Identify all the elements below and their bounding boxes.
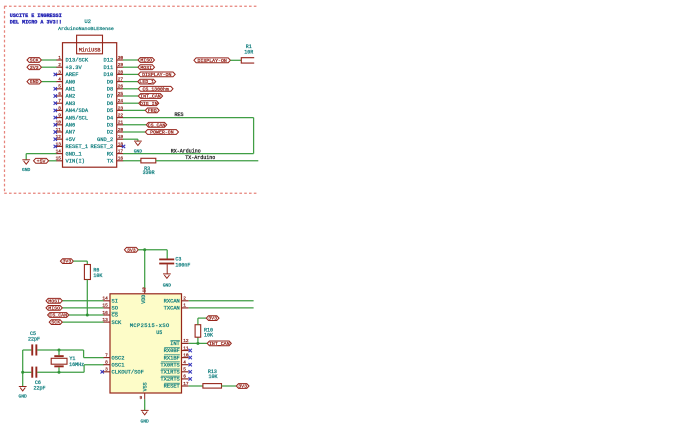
svg-text:16MHz: 16MHz [69, 362, 84, 368]
svg-text:INT: INT [170, 341, 180, 347]
svg-text:13: 13 [56, 141, 62, 147]
svg-text:TXCAN: TXCAN [164, 306, 180, 312]
svg-text:5: 5 [183, 367, 186, 373]
svg-text:AN4/SDA: AN4/SDA [66, 108, 89, 114]
svg-text:AN0: AN0 [66, 79, 76, 85]
svg-text:10K: 10K [93, 273, 102, 279]
svg-text:17: 17 [183, 381, 189, 387]
svg-text:3V3: 3V3 [127, 247, 136, 253]
svg-text:VDD: VDD [141, 295, 147, 304]
svg-text:LED_1: LED_1 [139, 79, 154, 85]
svg-text:CLKOUT/SOF: CLKOUT/SOF [112, 370, 144, 376]
svg-text:7: 7 [58, 98, 61, 104]
svg-text:D9: D9 [107, 79, 113, 85]
svg-text:22: 22 [118, 113, 124, 119]
svg-text:D3: D3 [107, 123, 113, 129]
svg-text:USCITE E INGRESSI: USCITE E INGRESSI [10, 13, 62, 19]
svg-text:GND_2: GND_2 [97, 137, 113, 143]
svg-text:19: 19 [118, 134, 124, 140]
svg-text:MISO: MISO [48, 305, 60, 311]
svg-text:MISO: MISO [140, 58, 152, 64]
svg-text:5: 5 [58, 84, 61, 90]
svg-text:23: 23 [118, 105, 124, 111]
svg-text:RESET: RESET [164, 384, 181, 390]
svg-text:330R: 330R [143, 170, 155, 176]
svg-text:U2: U2 [84, 19, 90, 25]
svg-text:10K: 10K [204, 333, 213, 339]
svg-text:RX-Arduino: RX-Arduino [171, 148, 201, 154]
svg-text:10: 10 [183, 352, 189, 358]
svg-text:12: 12 [183, 338, 189, 344]
svg-text:MCP2515-xSO: MCP2515-xSO [130, 323, 170, 329]
svg-text:3V3: 3V3 [30, 65, 39, 71]
svg-text:4: 4 [183, 360, 186, 366]
svg-text:9: 9 [58, 113, 61, 119]
svg-text:AN6: AN6 [66, 123, 76, 129]
svg-text:D5: D5 [107, 108, 113, 114]
svg-text:CS_CAN: CS_CAN [148, 122, 166, 128]
svg-text:26: 26 [118, 84, 124, 90]
svg-text:RXCAN: RXCAN [164, 299, 180, 305]
svg-text:D13/SCK: D13/SCK [66, 58, 89, 64]
svg-text:25: 25 [118, 91, 124, 97]
svg-text:7: 7 [105, 352, 108, 358]
svg-text:17: 17 [118, 149, 124, 155]
svg-text:RX0BF: RX0BF [164, 348, 180, 354]
svg-text:3V3: 3V3 [238, 384, 247, 390]
svg-text:10: 10 [56, 120, 62, 126]
svg-text:TX2RTS: TX2RTS [160, 377, 179, 383]
svg-text:INT_CAN: INT_CAN [209, 341, 230, 347]
svg-text:10K: 10K [208, 374, 217, 380]
svg-text:AN5/SCL: AN5/SCL [66, 115, 89, 121]
svg-text:AN7: AN7 [66, 130, 76, 136]
svg-text:1: 1 [58, 55, 61, 61]
svg-text:21: 21 [118, 120, 124, 126]
svg-text:RX: RX [107, 151, 114, 157]
svg-text:SO: SO [112, 306, 118, 312]
svg-text:GND: GND [22, 167, 31, 173]
svg-text:+3.3V: +3.3V [66, 65, 83, 71]
svg-text:6: 6 [183, 374, 186, 380]
svg-text:C3: C3 [175, 256, 181, 262]
svg-text:3: 3 [105, 367, 108, 373]
svg-text:20: 20 [118, 127, 124, 133]
svg-text:22pF: 22pF [28, 337, 40, 343]
svg-text:D4: D4 [107, 115, 113, 121]
svg-text:GND_1: GND_1 [66, 151, 82, 157]
svg-text:11: 11 [56, 127, 62, 133]
svg-text:DEL MICRO A 3V3!!: DEL MICRO A 3V3!! [10, 20, 62, 26]
svg-text:27: 27 [118, 77, 124, 83]
svg-text:AN2: AN2 [66, 94, 76, 100]
svg-text:CS: CS [112, 313, 118, 319]
svg-text:POWER-ON: POWER-ON [150, 130, 174, 136]
svg-text:2: 2 [183, 296, 186, 302]
svg-text:DISPLAY-ON: DISPLAY-ON [197, 58, 226, 64]
svg-text:D2: D2 [107, 130, 113, 136]
svg-text:ArduinoNanoBLESense: ArduinoNanoBLESense [58, 26, 114, 32]
svg-text:3V3: 3V3 [208, 316, 217, 322]
svg-text:CS_CAN: CS_CAN [49, 313, 67, 319]
svg-text:11: 11 [183, 345, 189, 351]
svg-text:MOSI: MOSI [140, 65, 152, 71]
svg-text:AN3: AN3 [66, 101, 76, 107]
svg-text:D7: D7 [107, 94, 113, 100]
svg-text:3V3: 3V3 [62, 259, 71, 265]
svg-text:D12: D12 [103, 58, 113, 64]
svg-text:6: 6 [58, 91, 61, 97]
svg-text:SCK: SCK [51, 320, 60, 326]
svg-text:1: 1 [183, 303, 186, 309]
svg-text:TX1RTS: TX1RTS [160, 370, 179, 376]
svg-text:AN1: AN1 [66, 87, 76, 93]
svg-text:TX0RTS: TX0RTS [160, 362, 179, 368]
svg-text:10R: 10R [244, 50, 253, 56]
svg-text:OSC1: OSC1 [112, 362, 125, 368]
svg-text:GND: GND [30, 79, 39, 85]
svg-text:RES: RES [174, 112, 183, 118]
svg-text:D6: D6 [107, 101, 113, 107]
svg-text:VSS: VSS [142, 382, 148, 391]
svg-text:8: 8 [58, 105, 61, 111]
svg-text:TX: TX [107, 159, 114, 165]
svg-text:SCK: SCK [112, 320, 122, 326]
svg-text:24: 24 [118, 98, 124, 104]
svg-text:2: 2 [58, 62, 61, 68]
svg-text:+5V: +5V [66, 137, 76, 143]
svg-text:18: 18 [118, 141, 124, 147]
svg-text:SCK: SCK [30, 58, 39, 64]
svg-text:INT_CAN: INT_CAN [140, 94, 161, 100]
svg-text:DISPLAY-ON: DISPLAY-ON [142, 72, 171, 78]
svg-text:3: 3 [58, 69, 61, 75]
svg-text:4: 4 [58, 77, 61, 83]
svg-text:VIN(I): VIN(I) [66, 159, 85, 165]
svg-text:FRQ: FRQ [148, 108, 157, 114]
svg-text:RESET_2: RESET_2 [91, 144, 114, 150]
svg-text:RX1BF: RX1BF [164, 355, 180, 361]
svg-text:RESET_1: RESET_1 [66, 144, 89, 150]
svg-text:D10: D10 [103, 72, 113, 78]
svg-text:SI: SI [112, 299, 118, 305]
svg-text:9: 9 [139, 395, 142, 401]
svg-text:AREF: AREF [66, 72, 79, 78]
svg-text:8: 8 [105, 360, 108, 366]
svg-text:GND: GND [19, 393, 28, 399]
svg-text:U5: U5 [156, 330, 162, 336]
svg-text:28: 28 [118, 69, 124, 75]
svg-text:22pF: 22pF [33, 386, 45, 392]
svg-text:TX-Arduino: TX-Arduino [185, 155, 215, 161]
svg-text:CS_1300hm: CS_1300hm [142, 86, 168, 92]
svg-text:OSC2: OSC2 [112, 355, 125, 361]
svg-text:D8: D8 [107, 87, 113, 93]
svg-text:12: 12 [56, 134, 62, 140]
svg-text:DIG_IN: DIG_IN [140, 101, 158, 107]
svg-text:30: 30 [118, 55, 124, 61]
svg-text:+5V: +5V [37, 158, 46, 164]
svg-text:GND: GND [163, 282, 172, 288]
svg-text:GND: GND [141, 418, 150, 424]
svg-text:MOSI: MOSI [48, 298, 60, 304]
svg-text:MiniUSB: MiniUSB [79, 47, 101, 53]
svg-text:D11: D11 [103, 65, 113, 71]
svg-text:100nF: 100nF [175, 263, 190, 269]
svg-text:29: 29 [118, 62, 124, 68]
svg-text:16: 16 [118, 156, 124, 162]
